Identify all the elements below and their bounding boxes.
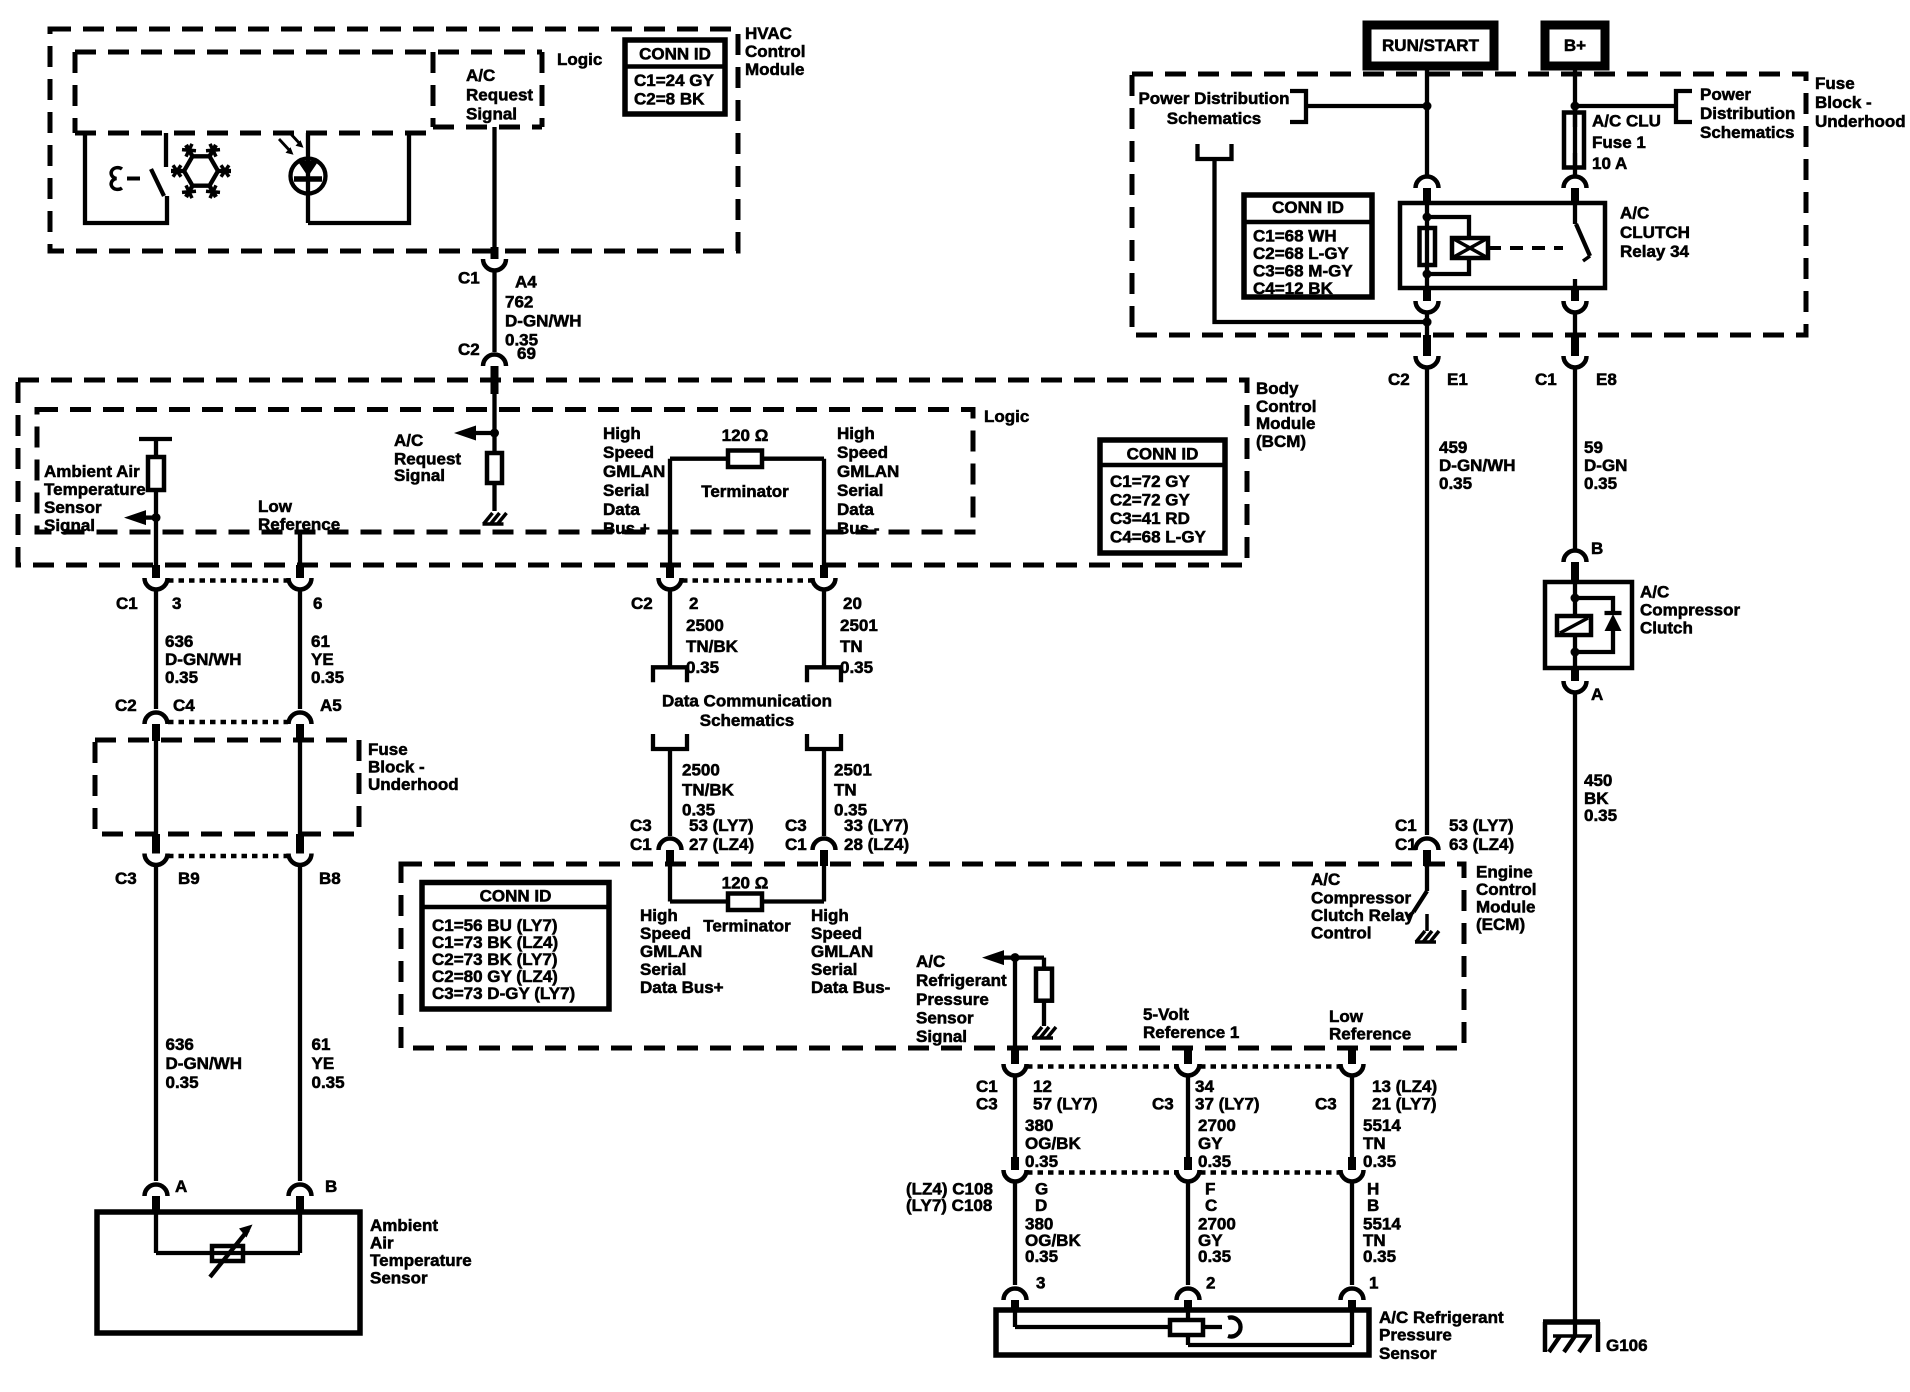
svg-text:C2: C2 [631,594,653,613]
svg-text:C2=72 GY: C2=72 GY [1110,491,1191,510]
svg-text:Speed: Speed [640,924,691,943]
svg-text:2500: 2500 [686,616,724,635]
svg-text:Air: Air [370,1234,394,1253]
svg-text:450: 450 [1584,771,1612,790]
svg-text:C4: C4 [173,696,195,715]
svg-text:B8: B8 [319,869,341,888]
svg-text:Serial: Serial [640,960,686,979]
svg-text:Underhood: Underhood [368,775,459,794]
svg-text:Serial: Serial [837,481,883,500]
svg-text:Temperature: Temperature [44,480,146,499]
svg-text:Data Communication: Data Communication [662,692,832,711]
svg-text:TN: TN [840,637,863,656]
svg-text:Sensor: Sensor [370,1269,428,1288]
svg-text:2501: 2501 [840,616,878,635]
svg-text:B: B [1591,539,1603,558]
svg-text:CLUTCH: CLUTCH [1620,223,1690,242]
svg-text:33 (LY7): 33 (LY7) [844,816,909,835]
svg-text:0.35: 0.35 [1363,1247,1396,1266]
svg-text:C3: C3 [976,1095,998,1114]
svg-text:GMLAN: GMLAN [640,942,702,961]
svg-text:0.35: 0.35 [166,1073,199,1092]
svg-text:459: 459 [1439,438,1467,457]
svg-text:Signal: Signal [44,516,95,535]
svg-text:HVAC: HVAC [745,24,792,43]
svg-text:Schematics: Schematics [700,711,795,730]
svg-text:Reference: Reference [1329,1025,1411,1044]
svg-text:53 (LY7): 53 (LY7) [689,816,754,835]
svg-text:C2: C2 [458,340,480,359]
svg-text:High: High [837,424,875,443]
svg-text:63 (LZ4): 63 (LZ4) [1449,835,1514,854]
svg-text:3: 3 [172,594,181,613]
svg-text:C1: C1 [976,1077,998,1096]
svg-text:C4=12 BK: C4=12 BK [1253,279,1334,298]
svg-text:C1=72 GY: C1=72 GY [1110,472,1191,491]
svg-text:20: 20 [843,594,862,613]
svg-text:59: 59 [1584,438,1603,457]
svg-text:Distribution: Distribution [1700,104,1795,123]
svg-text:Module: Module [1476,898,1536,917]
svg-text:Pressure: Pressure [916,990,989,1009]
svg-text:27 (LZ4): 27 (LZ4) [689,835,754,854]
svg-text:CONN ID: CONN ID [1272,198,1344,217]
svg-text:Block -: Block - [368,758,425,777]
svg-text:Speed: Speed [811,924,862,943]
svg-text:Power: Power [1700,85,1751,104]
svg-text:C1: C1 [116,594,138,613]
svg-text:High: High [640,906,678,925]
svg-text:C1=68 WH: C1=68 WH [1253,227,1337,246]
svg-text:G106: G106 [1606,1336,1648,1355]
svg-text:0.35: 0.35 [1025,1247,1058,1266]
svg-text:Sensor: Sensor [44,498,102,517]
svg-text:A: A [175,1177,187,1196]
svg-text:61: 61 [311,632,330,651]
svg-text:Data: Data [837,500,874,519]
svg-text:Module: Module [1256,414,1316,433]
svg-text:53 (LY7): 53 (LY7) [1449,816,1514,835]
svg-text:C3: C3 [1152,1095,1174,1114]
svg-text:Block -: Block - [1815,93,1872,112]
svg-text:0.35: 0.35 [311,668,344,687]
svg-text:C2: C2 [115,696,137,715]
svg-text:Serial: Serial [811,960,857,979]
svg-text:C3=68 M-GY: C3=68 M-GY [1253,262,1353,281]
svg-text:RUN/START: RUN/START [1382,36,1480,55]
svg-text:C1=24 GY: C1=24 GY [634,71,715,90]
svg-text:Data Bus-: Data Bus- [811,978,890,997]
svg-text:A/C: A/C [1311,870,1340,889]
svg-text:Schematics: Schematics [1700,123,1795,142]
svg-text:C1: C1 [1535,370,1557,389]
svg-text:10 A: 10 A [1592,154,1627,173]
svg-text:Sensor: Sensor [1379,1344,1437,1363]
svg-text:C3: C3 [785,816,807,835]
svg-text:TN/BK: TN/BK [682,781,735,800]
svg-text:Fuse: Fuse [368,740,408,759]
svg-text:B: B [1367,1196,1379,1215]
svg-text:0.35: 0.35 [1198,1152,1231,1171]
svg-text:Terminator: Terminator [703,917,791,936]
svg-text:5-Volt: 5-Volt [1143,1005,1189,1024]
svg-text:Underhood: Underhood [1815,112,1906,131]
svg-text:A4: A4 [515,273,537,292]
svg-text:Logic: Logic [984,407,1029,426]
svg-text:0.35: 0.35 [1363,1152,1396,1171]
svg-text:Request: Request [466,86,533,105]
svg-text:762: 762 [505,293,533,312]
svg-text:120 Ω: 120 Ω [722,426,769,445]
svg-text:OG/BK: OG/BK [1025,1134,1081,1153]
svg-text:C: C [1205,1196,1217,1215]
svg-text:Control: Control [1311,924,1371,943]
svg-text:A/C: A/C [916,952,945,971]
svg-text:CONN ID: CONN ID [1127,445,1199,464]
svg-text:Relay 34: Relay 34 [1620,242,1690,261]
svg-text:D-GN: D-GN [1584,456,1627,475]
svg-text:YE: YE [311,650,334,669]
svg-text:2: 2 [689,594,698,613]
svg-text:Body: Body [1256,379,1299,398]
svg-text:Signal: Signal [916,1027,967,1046]
svg-text:C3: C3 [630,816,652,835]
svg-text:A/C: A/C [394,431,423,450]
svg-text:0.35: 0.35 [165,668,198,687]
svg-text:Clutch Relay: Clutch Relay [1311,906,1415,925]
svg-text:Bus -: Bus - [837,519,880,538]
svg-text:69: 69 [517,344,536,363]
svg-text:Engine: Engine [1476,863,1533,882]
svg-text:13 (LZ4): 13 (LZ4) [1372,1077,1437,1096]
svg-text:TN/BK: TN/BK [686,637,739,656]
svg-text:C1: C1 [458,269,480,288]
svg-text:0.35: 0.35 [840,658,873,677]
svg-text:E1: E1 [1447,370,1468,389]
svg-text:Signal: Signal [466,105,517,124]
svg-text:Low: Low [258,497,293,516]
svg-text:57 (LY7): 57 (LY7) [1033,1095,1098,1114]
svg-text:0.35: 0.35 [1584,806,1617,825]
svg-text:2500: 2500 [682,761,720,780]
svg-text:5514: 5514 [1363,1116,1401,1135]
svg-text:TN: TN [834,781,857,800]
svg-text:Compressor: Compressor [1640,601,1741,620]
svg-text:Fuse 1: Fuse 1 [1592,133,1646,152]
svg-text:GMLAN: GMLAN [837,462,899,481]
svg-text:2: 2 [1206,1274,1215,1293]
svg-text:6: 6 [313,594,322,613]
svg-text:C3: C3 [1315,1095,1337,1114]
svg-text:CONN ID: CONN ID [639,45,711,64]
svg-text:Speed: Speed [603,443,654,462]
svg-text:(LY7) C108: (LY7) C108 [906,1196,992,1215]
svg-text:TN: TN [1363,1134,1386,1153]
svg-text:High: High [811,906,849,925]
svg-text:C3=41 RD: C3=41 RD [1110,509,1190,528]
svg-text:Ambient: Ambient [370,1216,438,1235]
svg-text:B+: B+ [1564,36,1586,55]
svg-text:C1: C1 [630,835,652,854]
svg-text:Signal: Signal [394,466,445,485]
svg-text:Data: Data [603,500,640,519]
svg-text:0.35: 0.35 [1198,1247,1231,1266]
svg-text:380: 380 [1025,1116,1053,1135]
svg-text:A: A [1591,685,1603,704]
svg-text:120 Ω: 120 Ω [722,874,769,893]
svg-text:C3=73 D-GY (LY7): C3=73 D-GY (LY7) [432,984,575,1003]
svg-text:636: 636 [166,1035,194,1054]
svg-text:A/C Refrigerant: A/C Refrigerant [1379,1308,1504,1327]
svg-text:Control: Control [745,42,805,61]
svg-text:Bus +: Bus + [603,519,650,538]
svg-text:D-GN/WH: D-GN/WH [505,312,581,331]
svg-text:GMLAN: GMLAN [603,462,665,481]
svg-text:D-GN/WH: D-GN/WH [1439,456,1515,475]
svg-text:A/C CLU: A/C CLU [1592,112,1661,131]
svg-text:28 (LZ4): 28 (LZ4) [844,835,909,854]
svg-text:Ambient Air: Ambient Air [44,462,140,481]
svg-text:0.35: 0.35 [1584,474,1617,493]
svg-text:Module: Module [745,60,805,79]
svg-text:YE: YE [312,1054,335,1073]
svg-text:Power Distribution: Power Distribution [1138,89,1289,108]
svg-text:Data Bus+: Data Bus+ [640,978,724,997]
svg-text:D: D [1035,1196,1047,1215]
svg-text:Clutch: Clutch [1640,619,1693,638]
svg-text:C1: C1 [1395,816,1417,835]
svg-text:3: 3 [1036,1274,1045,1293]
svg-text:(ECM): (ECM) [1476,915,1525,934]
svg-text:B: B [325,1177,337,1196]
svg-text:2700: 2700 [1198,1116,1236,1135]
svg-text:A/C: A/C [1640,583,1669,602]
svg-text:E8: E8 [1596,370,1617,389]
svg-text:Logic: Logic [557,50,602,69]
svg-text:C1: C1 [785,835,807,854]
svg-text:34: 34 [1195,1077,1214,1096]
svg-text:Pressure: Pressure [1379,1326,1452,1345]
svg-text:Serial: Serial [603,481,649,500]
svg-text:(BCM): (BCM) [1256,432,1306,451]
svg-text:Sensor: Sensor [916,1009,974,1028]
svg-text:Reference 1: Reference 1 [1143,1023,1239,1042]
svg-text:0.35: 0.35 [686,658,719,677]
svg-text:Fuse: Fuse [1815,74,1855,93]
svg-text:Low: Low [1329,1007,1364,1026]
svg-text:C3: C3 [115,869,137,888]
svg-text:High: High [603,424,641,443]
svg-text:37 (LY7): 37 (LY7) [1195,1095,1260,1114]
svg-text:2501: 2501 [834,761,872,780]
svg-text:0.35: 0.35 [1025,1152,1058,1171]
svg-text:GY: GY [1198,1134,1223,1153]
svg-text:C1: C1 [1395,835,1417,854]
svg-text:C2=68 L-GY: C2=68 L-GY [1253,244,1350,263]
svg-text:A5: A5 [320,696,342,715]
svg-text:Refrigerant: Refrigerant [916,971,1007,990]
svg-text:0.35: 0.35 [1439,474,1472,493]
svg-text:Terminator: Terminator [701,482,789,501]
svg-text:Schematics: Schematics [1167,109,1262,128]
svg-text:C4=68 L-GY: C4=68 L-GY [1110,528,1207,547]
svg-text:C2: C2 [1388,370,1410,389]
svg-text:B9: B9 [178,869,200,888]
svg-text:Compressor: Compressor [1311,889,1412,908]
svg-text:61: 61 [312,1035,331,1054]
svg-text:A/C: A/C [466,66,495,85]
svg-text:0.35: 0.35 [312,1073,345,1092]
svg-text:636: 636 [165,632,193,651]
svg-text:Temperature: Temperature [370,1251,472,1270]
svg-text:C2=8 BK: C2=8 BK [634,90,705,109]
svg-text:21 (LY7): 21 (LY7) [1372,1095,1437,1114]
svg-text:D-GN/WH: D-GN/WH [165,650,241,669]
svg-text:GMLAN: GMLAN [811,942,873,961]
svg-text:Speed: Speed [837,443,888,462]
svg-text:D-GN/WH: D-GN/WH [166,1054,242,1073]
svg-text:1: 1 [1369,1274,1378,1293]
svg-text:12: 12 [1033,1077,1052,1096]
svg-text:CONN ID: CONN ID [480,887,552,906]
svg-text:Control: Control [1476,880,1536,899]
svg-text:A/C: A/C [1620,204,1649,223]
